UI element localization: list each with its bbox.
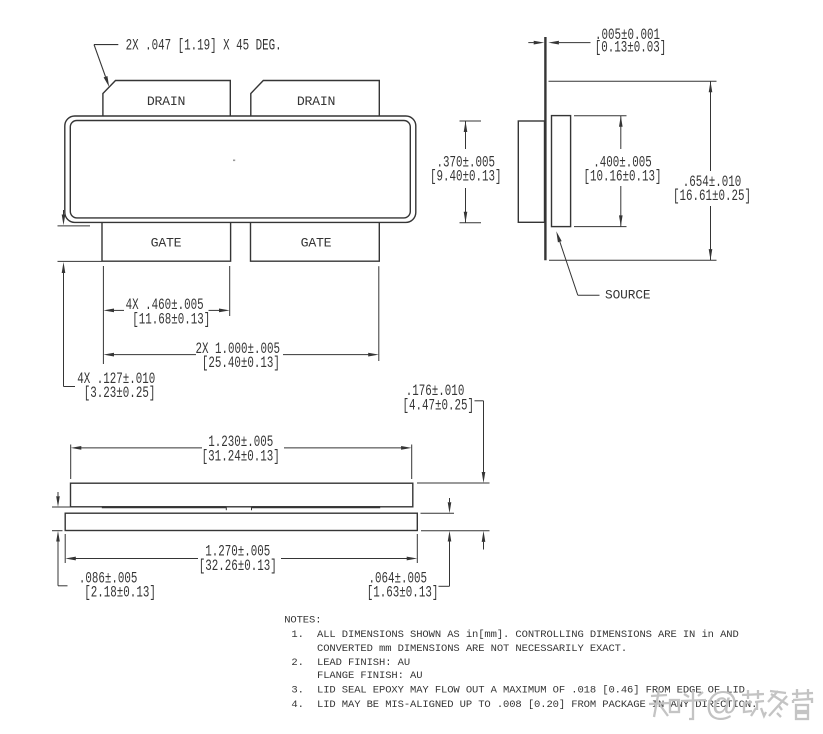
- svg-text:[2.18±0.13]: [2.18±0.13]: [84, 585, 156, 602]
- svg-text:CONVERTED mm DIMENSIONS ARE NO: CONVERTED mm DIMENSIONS ARE NOT NECESSAR…: [317, 643, 627, 655]
- svg-text:2X .047 [1.19] X 45 DEG.: 2X .047 [1.19] X 45 DEG.: [126, 38, 282, 55]
- svg-text:FLANGE FINISH: AU: FLANGE FINISH: AU: [317, 670, 422, 682]
- svg-text:NOTES:: NOTES:: [284, 614, 321, 626]
- svg-text:2.: 2.: [291, 657, 303, 669]
- svg-text:LEAD FINISH: AU: LEAD FINISH: AU: [317, 657, 410, 669]
- svg-text:4.: 4.: [291, 699, 303, 711]
- svg-text:[10.16±0.13]: [10.16±0.13]: [583, 169, 661, 186]
- svg-text:[0.13±0.03]: [0.13±0.03]: [595, 40, 667, 57]
- svg-text:GATE: GATE: [151, 236, 182, 251]
- svg-text:DRAIN: DRAIN: [297, 94, 335, 109]
- svg-text:DRAIN: DRAIN: [147, 94, 185, 109]
- svg-text:[1.63±0.13]: [1.63±0.13]: [367, 585, 439, 602]
- svg-text:SOURCE: SOURCE: [605, 287, 651, 302]
- svg-text:[25.40±0.13]: [25.40±0.13]: [202, 355, 280, 372]
- svg-text:[11.68±0.13]: [11.68±0.13]: [132, 312, 210, 329]
- svg-text:[16.61±0.25]: [16.61±0.25]: [673, 188, 751, 205]
- svg-text:ALL DIMENSIONS SHOWN AS in[mm]: ALL DIMENSIONS SHOWN AS in[mm]. CONTROLL…: [317, 629, 739, 641]
- svg-text:[31.24±0.13]: [31.24±0.13]: [202, 449, 280, 466]
- svg-text:1.: 1.: [291, 629, 303, 641]
- svg-text:3.: 3.: [291, 684, 303, 696]
- svg-text:[3.23±0.25]: [3.23±0.25]: [84, 385, 156, 402]
- svg-text:GATE: GATE: [301, 236, 332, 251]
- svg-text:[4.47±0.25]: [4.47±0.25]: [403, 398, 475, 415]
- svg-text:[9.40±0.13]: [9.40±0.13]: [430, 169, 502, 186]
- svg-text:@: @: [705, 685, 739, 722]
- svg-text:[32.26±0.13]: [32.26±0.13]: [199, 558, 277, 575]
